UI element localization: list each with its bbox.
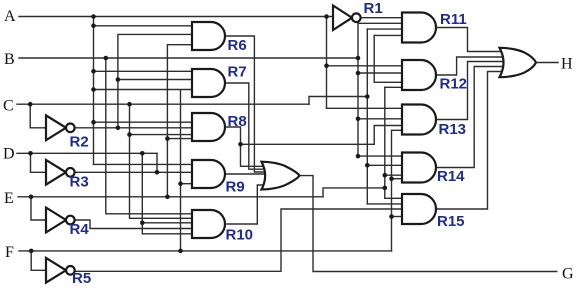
node D to R3 xyxy=(28,151,33,156)
svg-text:R14: R14 xyxy=(437,168,465,185)
node F bus R15 xyxy=(389,214,394,219)
node A to R12 in1 xyxy=(324,64,329,69)
node C bus join xyxy=(365,94,370,99)
node E riser xyxy=(165,195,170,200)
wire R2 out riser to R6 in2 xyxy=(118,34,196,127)
wire R3 output to R9 in2 xyxy=(75,171,196,173)
and gate R6 xyxy=(192,22,225,50)
node A branch R1 xyxy=(324,14,329,19)
node A to R8 in1 xyxy=(91,120,96,125)
wire C to R8 in3 xyxy=(130,134,197,136)
node F bus R14 xyxy=(389,176,394,181)
svg-text:R6: R6 xyxy=(228,37,247,54)
node E to R8 in4 xyxy=(165,136,170,141)
svg-text:B: B xyxy=(4,51,15,68)
wire R13 output to OR2 in3 xyxy=(436,62,505,120)
svg-text:R5: R5 xyxy=(72,270,91,287)
wire E to inverter R4 xyxy=(31,197,46,220)
wire A vertical left xyxy=(93,17,95,165)
wire E riser left to R6 in3 xyxy=(167,45,196,197)
svg-text:R9: R9 xyxy=(226,179,245,196)
svg-text:R7: R7 xyxy=(228,64,247,81)
svg-text:R11: R11 xyxy=(440,11,467,28)
and gate R15 xyxy=(402,194,436,224)
inverter R4 xyxy=(46,208,66,233)
wire A to R7 in1 xyxy=(94,70,197,72)
wire A to R7 in3 xyxy=(94,89,197,91)
wire R8 output to R13 in3 and OR1 in1 xyxy=(225,127,264,166)
node D join R3 out xyxy=(155,170,160,175)
svg-text:E: E xyxy=(4,190,14,207)
node R2 out riser xyxy=(116,126,121,131)
node E join right bus xyxy=(383,186,388,191)
node D branch xyxy=(140,151,145,156)
wire C jog to right bus xyxy=(309,97,367,105)
wire B to R12 in2 xyxy=(358,72,404,74)
svg-text:H: H xyxy=(561,56,573,73)
node E bus R14 xyxy=(383,173,388,178)
wire F to R9 in3 xyxy=(181,183,197,185)
svg-text:R8: R8 xyxy=(228,113,247,130)
node C to R2 xyxy=(28,102,33,107)
wire C to inverter R2 xyxy=(30,104,46,128)
wire E to R8 in4 xyxy=(167,138,196,140)
wire F to R14 in4 xyxy=(392,178,405,180)
and gate R10 xyxy=(192,210,225,238)
wire E jog right xyxy=(323,188,385,197)
wire input C xyxy=(17,103,309,105)
svg-text:R3: R3 xyxy=(70,174,89,191)
inverter R3 xyxy=(46,160,66,185)
wire OR2 output H xyxy=(536,62,558,64)
wire R2 output to R8 in2 xyxy=(75,127,196,129)
and gate R11 xyxy=(402,13,436,43)
node D to R10 in3 xyxy=(140,221,145,226)
and gate R7 xyxy=(192,69,225,97)
wire B to R13 in2 xyxy=(358,118,404,120)
wire C vertical to R10 in2 xyxy=(130,104,197,218)
node C bus R14 xyxy=(365,163,370,168)
wire R11 output to OR2 in1 xyxy=(436,28,505,52)
node R2 out to R7 in2 xyxy=(116,77,121,82)
wire input B xyxy=(19,57,358,59)
node C to R8 in3 xyxy=(127,132,132,137)
wire E bus to R14 in3 xyxy=(385,174,404,176)
wire R1 output to R11 in1 xyxy=(361,17,404,19)
wire A to R6 in1 xyxy=(94,25,197,27)
node F to R9 in3 xyxy=(178,181,183,186)
wire R9 output to OR1 xyxy=(225,173,264,175)
wire vertical D right bus xyxy=(373,35,375,82)
wire vertical E right bus xyxy=(384,87,386,198)
wire R7 output to OR1 in2 xyxy=(225,83,264,169)
wire D to inverter R3 xyxy=(31,153,47,172)
and gate R9 xyxy=(192,160,225,188)
wire vertical B right bus xyxy=(357,23,359,156)
inverter R1 xyxy=(333,6,352,31)
wire B to R11 in2 xyxy=(358,22,404,24)
wire D bus to R11 in4 xyxy=(374,34,404,36)
svg-text:R13: R13 xyxy=(439,121,467,138)
wire C to R14 in2 xyxy=(367,164,404,166)
wire A to R9 in1 xyxy=(94,163,197,165)
wire input A xyxy=(19,16,333,18)
wire input F xyxy=(19,250,392,252)
wire R15 output to OR2 in5 xyxy=(436,72,505,210)
node B bus R13 xyxy=(356,117,361,122)
wire F to R15 in4 xyxy=(392,216,405,218)
wire F to inverter R5 xyxy=(31,251,46,270)
wire F riser right xyxy=(392,130,405,251)
svg-text:D: D xyxy=(3,146,15,163)
node F to R5 xyxy=(29,249,34,254)
and gate R13 xyxy=(402,105,436,135)
wire R2 out to R7 in2 xyxy=(118,79,196,81)
or gate OR1 middle xyxy=(262,162,300,190)
svg-text:R1: R1 xyxy=(364,0,383,17)
or gate OR2 right xyxy=(500,48,537,77)
svg-text:R10: R10 xyxy=(226,227,254,244)
wire E bus to R15 in1 xyxy=(385,197,404,199)
node B branch xyxy=(104,56,109,61)
node B bus R12 xyxy=(356,71,361,76)
wire input D xyxy=(17,152,157,154)
wire C to R11 in3 xyxy=(367,28,404,30)
svg-text:C: C xyxy=(3,98,14,115)
wire F riser left to R7 in3 line xyxy=(180,90,182,251)
wire R4 output to R10 in4 xyxy=(75,220,196,229)
node A to R7 in1 xyxy=(91,69,96,74)
wire B vertical to R10 in1 xyxy=(106,58,196,214)
wire vertical C right bus xyxy=(366,29,368,204)
node B bus R14 xyxy=(356,154,361,159)
wire R8 branch to R13 in3 xyxy=(241,126,405,145)
wire OR1 output to G xyxy=(300,176,557,272)
node E to R4 xyxy=(29,195,34,200)
wire A to R8 in1 xyxy=(94,121,197,123)
wire A to R13 in1 xyxy=(327,107,405,109)
svg-text:F: F xyxy=(5,244,14,261)
wire input E xyxy=(18,196,323,198)
svg-text:R12: R12 xyxy=(440,76,468,93)
svg-text:G: G xyxy=(562,266,574,283)
node A to R7 in3 xyxy=(91,87,96,92)
wire D vertical to R10 in3 and in5 xyxy=(142,153,196,234)
node A branch left xyxy=(91,14,96,19)
wire B to R14 in1 xyxy=(358,155,404,157)
node C branch xyxy=(127,102,132,107)
wire D bus to R12 in3 xyxy=(374,81,404,83)
svg-text:A: A xyxy=(4,8,16,25)
wire E bus to R12 in4 xyxy=(385,86,404,88)
and gate R8 xyxy=(192,113,225,141)
wire R14 output to OR2 in4 xyxy=(436,67,505,168)
wire R6 output to OR1 in3 xyxy=(225,36,264,172)
node F riser xyxy=(178,249,183,254)
node R8 out branch xyxy=(238,142,243,147)
node B end right bus xyxy=(356,56,361,61)
svg-text:R15: R15 xyxy=(437,213,465,230)
inverter R2 xyxy=(46,115,66,140)
svg-text:R4: R4 xyxy=(70,221,90,238)
wire R5 output to R15 in3 xyxy=(75,209,404,271)
inverter R5 xyxy=(46,258,66,283)
wire D to R10 in3 xyxy=(142,222,196,224)
wire D end drop to R3 out line xyxy=(156,153,158,172)
wire A to R12 in1 xyxy=(327,65,405,67)
wire R12 output to OR2 in2 xyxy=(436,57,505,75)
and gate R12 xyxy=(402,60,436,90)
wire C to R15 in2 xyxy=(367,203,404,205)
wire A vertical right xyxy=(326,17,328,109)
wire R10 output to OR1 in5 xyxy=(227,185,264,224)
node A to R6 xyxy=(91,24,96,29)
and gate R14 xyxy=(402,153,436,183)
svg-text:R2: R2 xyxy=(70,134,89,151)
